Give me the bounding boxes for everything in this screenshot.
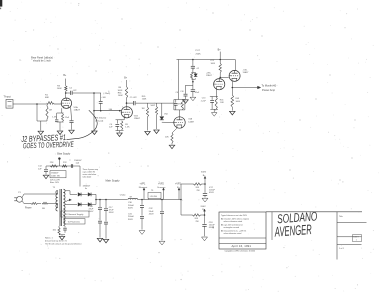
wire mains upper <box>24 193 58 195</box>
svg-text:100K: 100K <box>236 101 241 103</box>
network V1A cathode bottom <box>57 121 64 123</box>
ground branch2 <box>202 237 208 241</box>
svg-text:500P: 500P <box>151 105 156 107</box>
ground bias left <box>43 175 48 179</box>
title block divider lower <box>219 242 266 244</box>
ground R49 <box>230 111 235 115</box>
svg-text:300V: 300V <box>128 207 133 209</box>
title block right vertical <box>336 212 338 260</box>
wire branch2 node <box>201 214 205 216</box>
wire feed branch1 <box>180 184 182 200</box>
wire V2B cathode out <box>231 81 233 87</box>
svg-text:L50 5H: L50 5H <box>150 196 157 198</box>
net +VP2 tap <box>163 190 165 200</box>
resistor R11 clamp <box>191 73 193 80</box>
svg-text:April 16, 1991: April 16, 1991 <box>232 244 252 248</box>
capacitor C32 50uF <box>161 200 163 212</box>
wire feed branch2 <box>180 200 182 216</box>
svg-text:1N4007: 1N4007 <box>51 173 59 175</box>
transformer T1 core <box>59 189 61 226</box>
node bias top <box>58 157 60 159</box>
svg-text:20K: 20K <box>196 187 200 189</box>
network grid RC stage3 bottom <box>174 109 185 111</box>
wire supply rail <box>177 59 236 61</box>
svg-text:47uF: 47uF <box>89 208 94 210</box>
wire secondary top tap <box>65 190 70 192</box>
svg-text:100K: 100K <box>118 90 123 92</box>
callout box diodes <box>50 171 66 178</box>
resistor R50 100 heater ref <box>58 226 60 228</box>
svg-text:GOES TO OVERDRIVE: GOES TO OVERDRIVE <box>23 141 75 151</box>
capacitor C17b 47uF <box>104 221 108 223</box>
net +200V tap <box>204 211 206 215</box>
svg-text:Bias Supply: Bias Supply <box>57 152 71 155</box>
net +VP3 tap <box>178 190 180 200</box>
svg-text:C1B: C1B <box>89 206 94 208</box>
svg-text:22K: 22K <box>50 162 54 164</box>
svg-text:2.2uF: 2.2uF <box>201 100 207 102</box>
svg-text:68K: 68K <box>45 97 49 99</box>
svg-text:+100: +100 <box>101 97 105 99</box>
resistor R9 10K cathode <box>171 133 173 143</box>
fuse F1 mains <box>24 202 31 205</box>
net +300V tap <box>204 178 206 184</box>
wire V3 cathode <box>172 128 177 133</box>
node VP1 <box>141 199 143 201</box>
tube V2B 12AX7 <box>229 70 240 81</box>
svg-text:450V: 450V <box>149 213 154 215</box>
node VP2 <box>161 199 163 201</box>
svg-text:POT: POT <box>196 50 201 52</box>
capacitor C16 47uF <box>105 200 107 209</box>
wire D3-D4 <box>81 203 87 205</box>
wire chain top <box>192 60 194 66</box>
capacitor C5 .022uF coupling <box>127 102 134 104</box>
ground C3 <box>69 130 74 134</box>
svg-text:Choke: Choke <box>120 194 126 196</box>
wire rail to V2B <box>234 60 236 71</box>
scan noise specks <box>121 18 122 19</box>
svg-text:2W: 2W <box>196 221 199 223</box>
resistor R8 in RC <box>181 100 183 110</box>
wire C5 to stage3 <box>136 102 174 104</box>
title block rule r2 <box>337 236 362 238</box>
svg-text:+VP2: +VP2 <box>158 182 165 185</box>
svg-text:(.25uF): (.25uF) <box>104 93 111 95</box>
svg-text:1N4: 1N4 <box>164 113 167 115</box>
ground V3 cathode <box>171 143 173 145</box>
capacitor cathode small <box>56 113 58 119</box>
ground heater <box>59 236 64 240</box>
capacitor C14 47uF <box>99 200 101 208</box>
resistor R7 500P divider <box>156 103 158 106</box>
svg-text:FX Volume: FX Volume <box>96 118 107 120</box>
capacitor C6 in RC <box>175 100 177 103</box>
tube V2A 12AX7 <box>214 79 225 90</box>
resistor R45 1.8K <box>215 97 217 110</box>
svg-text:1.8K: 1.8K <box>220 102 225 104</box>
capacitor C15 47uF <box>98 220 102 222</box>
diode D2 <box>88 193 91 197</box>
connector AC plug <box>17 196 23 202</box>
ground C32 <box>159 241 165 245</box>
svg-text:AVENGER: AVENGER <box>274 223 313 240</box>
wire D1-D2 <box>81 193 87 195</box>
svg-text:20K: 20K <box>195 218 199 220</box>
wire V1B cathode to RC <box>120 117 125 120</box>
ground V1B cathode <box>119 131 121 133</box>
diode D1 <box>78 193 81 197</box>
svg-text:C10: C10 <box>180 91 183 93</box>
resistor R5 1.5K cathode <box>121 121 123 130</box>
resistor R2b 1.5K cathode <box>62 114 64 122</box>
svg-text:200uF: 200uF <box>128 205 135 207</box>
svg-text:+VP3: +VP3 <box>175 182 182 185</box>
svg-text:250K: 250K <box>196 53 202 55</box>
svg-text:1M: 1M <box>49 110 52 112</box>
resistor R12 20K 2W <box>194 183 202 185</box>
capacitor C4 cathode bypass <box>116 120 118 124</box>
wire node A down <box>93 93 95 130</box>
title block top rule <box>266 211 362 213</box>
title block outer box <box>219 212 266 249</box>
svg-text:+VP1: +VP1 <box>140 182 147 185</box>
wire stage3 up to rail <box>178 60 180 100</box>
wire R1 to V1A grid <box>54 103 61 105</box>
svg-text:C5 .022: C5 .022 <box>130 97 137 99</box>
ground V2A cathode <box>213 109 215 112</box>
svg-text:200uF: 200uF <box>128 216 135 218</box>
network V1B cathode RC top bar <box>116 119 124 121</box>
svg-text:1N4007: 1N4007 <box>83 185 91 187</box>
svg-text:Bias -50V: Bias -50V <box>50 182 60 184</box>
svg-text:P1: P1 <box>18 192 20 194</box>
svg-text:C6: C6 <box>176 92 178 94</box>
net +VP1 tap <box>143 190 145 200</box>
svg-text:450V: 450V <box>209 192 214 194</box>
ground C17b <box>103 239 108 243</box>
svg-text:100K: 100K <box>211 63 216 65</box>
svg-text:47uF: 47uF <box>109 209 114 211</box>
inductor L50 boxed <box>148 192 161 198</box>
svg-text:22K & 27K: 22K & 27K <box>50 179 60 181</box>
tube V3 12AX7 triode <box>174 117 185 128</box>
svg-text:.022: .022 <box>73 90 77 92</box>
resistor R49 100K <box>231 88 233 96</box>
svg-text:1.5K: 1.5K <box>52 117 57 119</box>
svg-text:R65: R65 <box>142 96 146 98</box>
wire output to power amp <box>232 87 257 89</box>
ground R7 <box>154 130 159 134</box>
svg-text:should be 1 inch: should be 1 inch <box>33 60 51 63</box>
transformer T1 secondary winding <box>63 189 65 192</box>
resistor R3 100K plate load <box>65 79 67 86</box>
title block sheet box <box>353 235 362 242</box>
capacitor C21 bias <box>70 164 72 168</box>
title block divider upper <box>219 237 266 239</box>
svg-text:C13: C13 <box>202 98 206 100</box>
wire heater join <box>59 234 65 236</box>
resistor R1 68K series grid stopper <box>47 102 55 105</box>
svg-text:R49: R49 <box>236 98 240 100</box>
capacitor C17 100uF <box>204 184 206 193</box>
wire bias rail right <box>79 166 81 187</box>
svg-text:.02: .02 <box>196 68 199 70</box>
svg-text:27K: 27K <box>63 162 67 164</box>
svg-text:1: 1 <box>356 240 357 242</box>
svg-text:200V: 200V <box>201 206 207 208</box>
wire J1 to R1 <box>13 103 46 105</box>
svg-text:T3: T3 <box>151 190 153 192</box>
svg-text:100K: 100K <box>142 99 147 101</box>
svg-text:300V: 300V <box>128 219 133 221</box>
diode D6 clamp <box>195 73 197 74</box>
resistor R6 1M <box>147 103 149 107</box>
wire bias rail <box>46 165 80 167</box>
ground V1A cathode <box>57 131 62 135</box>
capacitor C30 200uF <box>141 200 143 205</box>
capacitor C12 1uF <box>45 166 47 169</box>
scanner edge mark top-left corner <box>0 0 2 7</box>
wire choke out <box>138 199 181 201</box>
node C14 tap <box>99 199 101 201</box>
switch SW1 mains <box>42 202 48 204</box>
resistor R10 100K <box>219 60 221 64</box>
network V1B cathode RC bottom bar <box>116 130 124 132</box>
wire secondary bottom tap <box>65 203 70 205</box>
svg-text:450V: 450V <box>109 212 114 214</box>
ground side branch <box>183 100 188 104</box>
network grid RC stage3 top <box>174 99 185 101</box>
capacitor C22 heater <box>64 226 66 227</box>
capacitor C10 side branch <box>186 84 193 86</box>
wire B+ raw <box>96 199 128 201</box>
diode D5 clipper <box>161 103 163 116</box>
svg-text:100uF: 100uF <box>209 190 216 192</box>
resistor R21 22K <box>50 165 57 167</box>
svg-text:560: 560 <box>109 109 112 111</box>
ground R6 <box>145 132 150 136</box>
svg-text:100K 1W: 100K 1W <box>51 176 60 178</box>
wire plate junction <box>219 77 221 79</box>
callout box to filaments <box>64 219 85 224</box>
capacitor C3 22uF bypass <box>70 107 73 120</box>
capacitor C13 2.2uF <box>211 97 213 100</box>
wire C2 to node A <box>72 92 101 94</box>
title block rule r1 <box>337 221 367 223</box>
title block rule r3 <box>337 244 362 246</box>
transformer T1 primary winding <box>56 191 58 194</box>
svg-text:caps = 220V, 90: caps = 220V, 90 <box>83 172 96 174</box>
node C16 tap <box>105 199 107 201</box>
svg-text:1N4007: 1N4007 <box>74 160 82 162</box>
wire V1B plate <box>126 103 128 107</box>
ground chain <box>190 97 196 101</box>
ground below grid leak <box>40 121 42 131</box>
svg-text:(x2): (x2) <box>76 162 80 164</box>
svg-text:1 of 1: 1 of 1 <box>339 248 344 250</box>
wire branch1 node <box>202 183 206 185</box>
svg-text:1.5K: 1.5K <box>125 126 130 128</box>
network V2A cathode bottom <box>210 108 218 110</box>
ground node A branch <box>92 131 97 135</box>
ground C31 <box>139 231 145 235</box>
resistor R2 1M grid leak <box>36 104 38 121</box>
ground C15 <box>97 238 102 242</box>
capacitor C25 .25uF interstage <box>100 93 102 101</box>
capacitor C31 200uF <box>140 215 144 217</box>
node grid-leak junction <box>36 103 38 105</box>
node VP3 <box>180 199 182 201</box>
svg-text:2W: 2W <box>197 190 200 192</box>
wire V1A plate <box>65 93 67 98</box>
diode D3 <box>78 203 81 207</box>
network clamp top bar <box>192 72 196 74</box>
svg-text:1M: 1M <box>142 108 145 110</box>
svg-text:10K: 10K <box>165 137 169 139</box>
handwritten arrow to node <box>67 138 78 139</box>
arrow HV winding <box>65 200 69 202</box>
node clamp junction <box>192 81 194 83</box>
svg-text:100K: 100K <box>118 95 123 97</box>
capacitor C2 .022uF coupling <box>66 92 70 94</box>
svg-text:100K: 100K <box>57 88 62 90</box>
node A junction <box>93 92 95 94</box>
wire node A to V1B grid <box>94 110 121 112</box>
svg-text:450V: 450V <box>89 211 94 213</box>
inductor CH1 choke <box>128 198 130 199</box>
wire V1A cathode <box>61 108 63 113</box>
svg-text:4x: 4x <box>85 188 87 190</box>
ground branch1 <box>202 198 208 202</box>
tube V1B 12AX7 triode <box>121 107 132 118</box>
resistor R4 100K plate load <box>126 80 128 87</box>
diode D4 <box>88 203 91 207</box>
svg-text:V1B: V1B <box>134 115 139 117</box>
scan noise field <box>123 44 126 47</box>
title block cell divider <box>271 212 273 240</box>
network clamp bottom bar <box>192 78 196 80</box>
svg-text:50uF: 50uF <box>149 211 154 213</box>
callout box filament supply <box>61 211 89 217</box>
wire diode to V3 grid <box>162 121 174 123</box>
connector J1 input jack <box>6 100 13 109</box>
svg-text:R45: R45 <box>220 99 224 101</box>
tube V1A 12AX7 triode <box>61 98 71 108</box>
capacitor C8 .02 main <box>192 82 194 90</box>
resistor R22 27K <box>62 165 67 167</box>
svg-text:Rear Panel Jacks(s): Rear Panel Jacks(s) <box>31 57 53 60</box>
svg-text:300V: 300V <box>201 172 207 174</box>
capacitor C7 .02 <box>191 65 195 67</box>
capacitor C18 100uF <box>204 215 206 224</box>
wire V2A cathode <box>215 90 217 97</box>
wire rectifier join <box>91 193 96 195</box>
resistor R13 20K 2W <box>193 214 201 216</box>
